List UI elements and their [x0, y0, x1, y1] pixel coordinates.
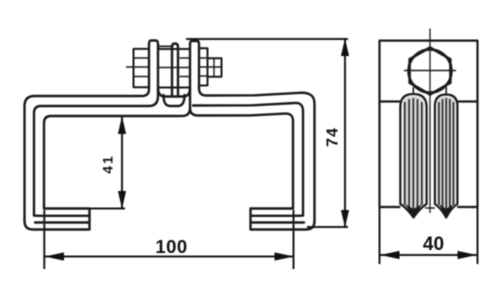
tab T3 (right clamp tab, rounded top) [190, 41, 199, 88]
wire: outer contour left wall + top face left segment up tab1-left [25, 45, 150, 222]
side view body outline [380, 41, 478, 207]
arrow 41 down [118, 191, 126, 209]
wire: valley floor outer U between tab1 and tab3 [158, 88, 190, 97]
svg-text:40: 40 [423, 234, 444, 255]
bolt B1: thread end internal lines [208, 58, 222, 76]
wire: right hook middle line 2 [252, 221, 304, 223]
finger F1 bottom point fill [405, 204, 422, 218]
dim 100 left extension line [43, 210, 45, 269]
dim 41 line [121, 117, 123, 208]
svg-text:100: 100 [155, 236, 187, 257]
wire: hook middle line 1 [34, 214, 88, 217]
bolt B1: right nut block [199, 48, 208, 85]
bolt B1: right nut internal lines [199, 58, 208, 76]
bolt B1: protruding thread end [208, 58, 222, 76]
tab T1 (left clamp tab, rounded top) [149, 41, 158, 45]
finger F2 (right leg, edge view) outline [435, 95, 458, 218]
side view upper horizontal line right [457, 100, 478, 102]
dim 40 right extension [477, 207, 479, 264]
side view bottom edge left segment [380, 206, 401, 208]
side view bottom edge right segment [457, 206, 477, 208]
centerline vertical through bolt [429, 29, 431, 214]
arrow 41 up [118, 116, 126, 134]
dim 74 top extension line [186, 38, 348, 40]
dim 100 line [44, 256, 294, 258]
dim 74 line [344, 39, 346, 227]
dim 41 extension line from hook tip [90, 208, 126, 210]
finger F2 interior tint [437, 97, 456, 214]
side view upper horizontal line left [380, 100, 401, 102]
wire: bottom-left hook outer [25, 209, 90, 230]
svg-text:41: 41 [100, 154, 116, 174]
finger F2 top tick [445, 87, 447, 95]
arrow 40 left [380, 251, 400, 259]
centerline cross tick at bottom [425, 207, 435, 209]
wire: inner third line left, runs under tabs to tab3-left [44, 45, 190, 209]
dim 40 left extension (body edge extended) [379, 207, 381, 264]
tab T2 (middle tab seen through gap) [172, 44, 178, 96]
arrow 100 left [45, 252, 65, 260]
bolt B1: left nut block [134, 49, 150, 87]
finger F2 bottom point fill [439, 204, 454, 218]
bolt B1: upper edge segment between tab1 and middle tab [159, 45, 171, 47]
bolt B1: shaft between tabs [158, 49, 190, 88]
finger F1 (left leg, edge view) outline [400, 94, 426, 218]
bolt B1: axis tick left of nut [127, 66, 134, 68]
arrow 100 right [275, 252, 295, 260]
finger F1 internal lines [405, 98, 422, 210]
arrow 74 up [341, 39, 349, 57]
arrow 74 down [341, 210, 349, 228]
bolt head circle [409, 50, 452, 93]
bolt B1: washer lines between tabs [158, 58, 190, 77]
wire: right hook middle line 1 [252, 214, 303, 217]
wire: valley floor inner deeper U [164, 95, 185, 106]
wire: middle contour left (inner surface) filleting up tab1-right [34, 45, 158, 216]
centerline horizontal through bolt head [404, 70, 456, 72]
wire: tab3-left fans right into inner right line [190, 108, 293, 209]
finger F2 internal lines [439, 98, 454, 210]
wire: hook middle line 2 [35, 221, 88, 223]
bolt head axial view: hexagon [409, 48, 452, 95]
dim 40 line [380, 254, 478, 256]
bolt B1: left nut internal lines [134, 58, 150, 77]
wire: tab3-right fillets into outer right top line [199, 88, 315, 221]
finger F1 interior tint [403, 96, 425, 213]
wire: right middle line [193, 103, 303, 216]
svg-text:74: 74 [325, 127, 342, 147]
dim 100 right extension line [293, 210, 295, 269]
finger F1 top tick [412, 87, 414, 94]
dim 74 bottom extension line [307, 226, 348, 228]
arrow 40 right [458, 251, 478, 259]
wire: bottom-right hook outer [251, 209, 315, 230]
